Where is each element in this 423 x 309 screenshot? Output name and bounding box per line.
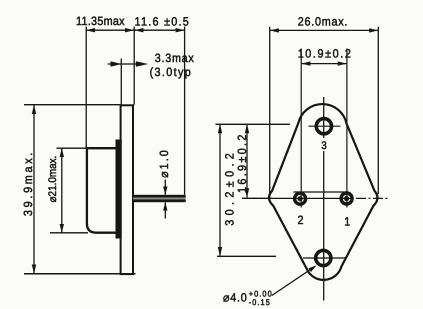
svg-text:16.9±0.2: 16.9±0.2	[235, 132, 249, 193]
cap rim (weld flange) solid bar	[116, 140, 122, 239]
3.3max arrow line	[108, 63, 137, 65]
svg-text:⌀21.0max.: ⌀21.0max.	[47, 156, 59, 203]
16.9 dimension line	[246, 124, 248, 198]
extension at pins level	[242, 197, 272, 199]
svg-text:10.9±0.2: 10.9±0.2	[298, 47, 353, 61]
vertical centerline	[323, 97, 325, 138]
crosshair ticks bottom hole	[303, 257, 346, 259]
pin centerline/extension right (pin 1)	[346, 49, 348, 208]
extension line: cap top edge to phi21 dim	[57, 147, 88, 149]
flange (mounting plate) outline	[121, 105, 133, 274]
top mounting hole	[316, 119, 331, 134]
svg-text:3: 3	[321, 140, 327, 152]
extension line: cap left edge up to top dimension	[85, 27, 87, 149]
svg-text:3.3max: 3.3max	[155, 51, 195, 65]
extension line: pin tip up to top dimension	[184, 27, 186, 195]
pin centerline/extension left (pin 2)	[300, 49, 302, 208]
extension bottom (bottom hole center)	[217, 255, 276, 257]
extension top (hole3 center)	[216, 123, 291, 125]
cap body outline	[87, 148, 116, 233]
svg-text:39.9max.: 39.9max.	[21, 150, 35, 216]
crosshair ticks top hole	[309, 125, 341, 127]
svg-text:26.0max.: 26.0max.	[298, 15, 348, 29]
3.3max flange thickness callout: left ext line	[120, 59, 122, 105]
horizontal centerline	[253, 197, 264, 199]
svg-text:⌀4.0: ⌀4.0	[223, 290, 247, 304]
bottom mounting hole	[316, 250, 331, 265]
extension line: cap bottom edge to phi21 dim	[50, 232, 88, 234]
pin (lead) of side view	[133, 195, 186, 198]
top dimension line (11.35max / 11.6+-0.5)	[86, 29, 185, 31]
extension lines 26.0	[269, 27, 271, 194]
pin 1 (right)	[341, 193, 352, 204]
10.9 dimension line	[301, 63, 347, 65]
svg-text:11.6 ±0.5: 11.6 ±0.5	[135, 15, 191, 29]
pin 2 (left)	[295, 193, 306, 204]
chord line across pins	[294, 191, 349, 193]
30.2 dimension line	[219, 124, 221, 256]
phi1.0 arrows to pin	[164, 180, 166, 195]
svg-text:(3.0typ: (3.0typ	[150, 65, 192, 79]
svg-text:+0.00: +0.00	[249, 289, 273, 298]
svg-text:-0.15: -0.15	[249, 298, 271, 307]
body outline (diamond flange)	[269, 104, 377, 280]
svg-text:⌀1.0: ⌀1.0	[157, 148, 171, 178]
svg-text:11.35max: 11.35max	[76, 14, 125, 28]
phi4.0 hole label leader	[272, 267, 315, 296]
extension line: flange top to 39.9 dim	[24, 104, 121, 106]
svg-text:1: 1	[344, 215, 350, 229]
26.0 dimension line	[270, 29, 379, 31]
svg-text:2: 2	[298, 213, 304, 227]
extension line: flange right edge up to top dimension	[133, 27, 135, 105]
dimension line 39.9max vertical	[33, 105, 35, 274]
dimension line phi21.0max vertical	[61, 148, 63, 233]
extension line: flange bottom to 39.9 dim	[24, 273, 136, 275]
